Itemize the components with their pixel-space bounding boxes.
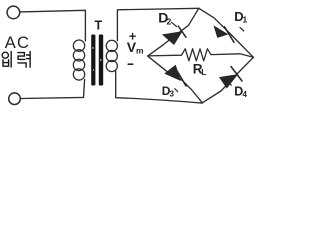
diode D2 cathode bar — [178, 26, 186, 37]
입 : i vertical — [10, 52, 12, 67]
diode D3 triangle — [165, 65, 186, 91]
terminal top-left — [7, 6, 20, 19]
diode D1 triangle — [214, 26, 244, 42]
diode D4 triangle — [220, 67, 243, 89]
력 : rieul — [18, 53, 25, 60]
svg-text:AC: AC — [5, 34, 30, 52]
svg-text:L: L — [201, 67, 206, 77]
leader tick D2 — [172, 22, 177, 26]
label - (Vm minus) — [128, 63, 132, 65]
label 입력 (Korean: input) drawn as strokes — [2, 52, 30, 68]
력 : yeo vertical — [29, 52, 31, 68]
wire secondary bottom to bridge bottom node — [116, 71, 203, 103]
svg-text:2: 2 — [167, 17, 172, 27]
leader tick D4 — [228, 82, 231, 85]
wire secondary top to bridge top node — [117, 8, 198, 40]
입 : bieup — [3, 60, 9, 66]
transformer secondary winding L2 — [106, 40, 117, 71]
입 : ieung circle — [2, 52, 8, 58]
transformer core bar left — [91, 35, 103, 86]
diode D1 cathode bar — [225, 27, 235, 43]
resistor RL zigzag middle branch — [148, 49, 254, 61]
label + (Vm plus) — [130, 34, 135, 40]
diode D4 cathode bar — [231, 67, 242, 82]
bridge edge upper-right — [199, 8, 254, 57]
svg-text:4: 4 — [243, 90, 248, 99]
diode D3 cathode bar — [177, 71, 186, 86]
svg-text:m: m — [136, 45, 144, 55]
transformer primary winding L1 — [73, 40, 84, 80]
leader tick D1 — [240, 28, 244, 32]
svg-text:T: T — [95, 18, 103, 32]
svg-text:1: 1 — [243, 15, 248, 25]
wire top-left to transformer primary — [20, 10, 86, 41]
terminal bottom-left — [9, 93, 21, 105]
bridge edge upper-left — [148, 8, 199, 56]
leader tick D3 — [175, 89, 178, 92]
diode D2 triangle — [163, 22, 186, 44]
력 : giyeok final — [18, 63, 26, 67]
bridge edge lower-right — [202, 57, 253, 103]
wire bottom-left to transformer primary — [21, 80, 85, 99]
력 : yeo ticks — [27, 54, 31, 56]
svg-text:3: 3 — [170, 90, 175, 99]
bridge edge lower-left — [148, 56, 203, 103]
transformer core bar right — [99, 35, 103, 86]
